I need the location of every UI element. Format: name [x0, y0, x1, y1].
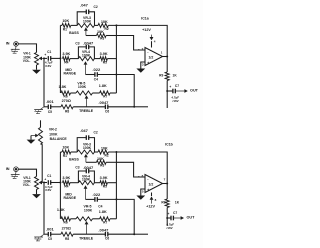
ground at non-inverting input [136, 196, 145, 200]
capacitor C5 .001 [48, 232, 50, 237]
pin 3 [142, 62, 144, 66]
wire jack to volume pot [18, 44, 36, 53]
svg-text:VR-2: VR-2 [49, 128, 57, 132]
label C3 [75, 41, 79, 45]
wire R1 to bass pot [71, 150, 77, 154]
wire mid wiper to C4 [86, 72, 95, 76]
svg-text:.022: .022 [92, 67, 101, 72]
svg-text:10K: 10K [101, 146, 108, 150]
wire R6 to treble pot [71, 217, 77, 221]
pin 5 [142, 189, 144, 193]
wire volume pot bottom [34, 189, 38, 194]
label VOL. [23, 183, 31, 187]
resistor R4 3.9K [63, 57, 71, 61]
svg-text:C7: C7 [175, 84, 179, 88]
label .0047 (C6) [98, 100, 109, 105]
svg-text:+12V: +12V [142, 28, 151, 32]
wire pot to R5 [94, 181, 100, 185]
wire wiper node to bottom row [42, 183, 46, 235]
capacitor C1 4.7uF [44, 53, 50, 61]
svg-text:-: - [147, 177, 148, 181]
svg-text:R1: R1 [63, 154, 67, 158]
svg-text:/16V: /16V [45, 64, 51, 68]
label 10K (R3) [97, 30, 104, 34]
svg-text:R5: R5 [103, 185, 107, 189]
label C5 [48, 237, 52, 241]
label VR-4 [82, 50, 90, 54]
potentiometer VR-4 100K mid [78, 181, 94, 185]
label 3.9K (R5) [100, 176, 108, 180]
wire balance pot top stub [38, 120, 42, 127]
label 4.7µF [45, 185, 53, 189]
svg-text:C4: C4 [94, 77, 98, 81]
input jack J2 [14, 167, 19, 172]
label 10K (R3) [97, 157, 104, 161]
wire supply pin [149, 41, 153, 47]
potentiometer VR-3 100K bass [77, 23, 94, 27]
label R1 [63, 27, 67, 31]
wire below C7 node [165, 91, 169, 108]
svg-text:R4: R4 [64, 60, 68, 64]
label 1.8K (R6) [57, 208, 65, 212]
wire C4 to feedback corner [98, 75, 135, 107]
wire C1 to left bus [51, 56, 60, 60]
wire R1 to bass pot [71, 23, 77, 27]
label R7 [103, 95, 107, 99]
label TREBLE [79, 109, 94, 113]
label /16V (C7) [173, 99, 179, 103]
svg-text:OUT: OUT [186, 216, 195, 220]
svg-text:C3: C3 [75, 166, 79, 170]
label 100K (VR-4) [82, 54, 91, 58]
label R6 [64, 221, 68, 225]
label C1 [47, 174, 51, 178]
svg-text:RANGE: RANGE [63, 72, 76, 76]
label VR-5 [77, 81, 85, 85]
ground at input jack [11, 172, 20, 179]
label 100K (VR-3) [83, 19, 92, 23]
svg-text:.001: .001 [46, 226, 55, 231]
label 1.8K (R7) [99, 84, 107, 88]
resistor R1 10K [62, 150, 71, 154]
svg-text:.0047: .0047 [83, 165, 94, 170]
svg-text:+: + [44, 177, 46, 181]
svg-text:100K: 100K [84, 209, 93, 213]
wire pot to R7 [93, 217, 100, 221]
resistor R3 10K [97, 160, 107, 164]
label minus pin [138, 174, 140, 178]
svg-text:1.8K: 1.8K [57, 208, 65, 212]
ground below volume pot [32, 70, 41, 74]
plus inside op-amp [147, 61, 149, 65]
wire balance wiper to ground [29, 136, 33, 140]
node C7 [166, 90, 168, 92]
node C4 line / bus [115, 198, 117, 200]
label BASS [69, 31, 79, 35]
node C7 [166, 217, 168, 219]
label R5 [103, 60, 107, 64]
wire bus to R1 [60, 23, 62, 27]
bass wiper arrow [84, 154, 88, 162]
potentiometer VR-1 (volume) [35, 52, 39, 65]
svg-text:100K: 100K [82, 54, 91, 58]
label 100K (VR-4) [82, 178, 91, 182]
label BALANCE [50, 137, 68, 141]
ground at input jack [11, 46, 20, 53]
wire to OUT [176, 89, 188, 93]
svg-text:+: + [167, 212, 169, 216]
label MID [65, 192, 72, 196]
svg-text:100K: 100K [78, 85, 87, 89]
wire R5 to right bus [107, 56, 116, 60]
ground at bottom row [34, 234, 44, 241]
node at left bus / C1 [59, 57, 61, 59]
wire C4 to feedback corner [98, 199, 135, 234]
potentiometer VR-2 100K balance [39, 127, 43, 144]
resistor R2 10K [98, 150, 108, 154]
pin 4 [154, 39, 156, 43]
svg-text:R7: R7 [103, 220, 107, 224]
label C7 [175, 84, 179, 88]
label VR-2 [49, 128, 57, 132]
supply arrow +12V [150, 196, 154, 203]
svg-text:/16V: /16V [167, 226, 173, 230]
treble wiper arrow stem [85, 221, 89, 234]
svg-text:3.9K: 3.9K [62, 176, 70, 180]
node bottom row corner [133, 106, 135, 108]
label R6 [64, 95, 68, 99]
wire op-amp output [163, 181, 168, 185]
resistor R3 10K [97, 34, 107, 38]
node bottom row corner [133, 233, 135, 235]
svg-text:1K: 1K [175, 200, 180, 204]
label R1 [63, 154, 67, 158]
svg-text:C6: C6 [105, 109, 109, 113]
svg-text:.047: .047 [80, 128, 89, 133]
label 10K (R1) [62, 19, 69, 23]
label 1/2 [148, 56, 153, 60]
capacitor C3 .0047 parallel loop [78, 45, 94, 59]
label .0047 (C6) [98, 227, 109, 232]
svg-text:VOL.: VOL. [23, 59, 31, 63]
label R4 [64, 185, 68, 189]
ground at balance wiper [27, 140, 36, 144]
wire op-amp output [163, 54, 168, 58]
svg-text:C1: C1 [47, 50, 51, 54]
plus inside op-amp [147, 188, 149, 192]
label +12V [142, 28, 151, 32]
non-inverting input wire [141, 62, 145, 69]
svg-text:10K: 10K [101, 20, 108, 24]
right bus wire [114, 152, 118, 219]
svg-text:IN: IN [6, 167, 10, 171]
label R9 [161, 200, 165, 204]
label .047 [80, 128, 89, 133]
potentiometer VR-5 100K treble [76, 91, 93, 95]
svg-text:C3: C3 [75, 41, 79, 45]
label 100K (VR-2) [49, 132, 58, 136]
label BASS [69, 157, 79, 161]
svg-text:C7: C7 [173, 211, 177, 215]
balance wiper arrow [31, 134, 39, 138]
label C4 [98, 205, 102, 209]
label IC1a [141, 17, 148, 21]
label VOL. [23, 59, 31, 63]
label 100K [23, 55, 31, 59]
wire bottom row stub [134, 105, 148, 109]
label .022 [92, 192, 101, 197]
label C3 [75, 166, 79, 170]
non-inverting input wire [141, 189, 145, 196]
label C1 [47, 50, 51, 54]
resistor R2 10K [98, 23, 108, 27]
wire pot to R5 [94, 56, 100, 60]
label /16V [45, 64, 51, 68]
svg-text:+: + [147, 61, 149, 65]
svg-text:10K: 10K [62, 19, 69, 23]
svg-text:/16V: /16V [45, 188, 51, 192]
svg-text:BASS: BASS [69, 31, 79, 35]
wire R4 to mid pot [70, 56, 78, 60]
wire output to R9 [165, 57, 169, 73]
wire R2 to output node [108, 25, 167, 56]
svg-text:3.9K: 3.9K [62, 52, 70, 56]
resistor R6 1.8K [61, 91, 71, 95]
wire C1 to left bus [51, 180, 60, 184]
pin 7 output [164, 177, 166, 181]
label OUT [186, 216, 195, 220]
svg-text:VOL.: VOL. [23, 183, 31, 187]
right bus wire [114, 25, 118, 93]
label TREBLE [79, 237, 94, 241]
svg-text:100K: 100K [49, 132, 58, 136]
pin 6 [142, 174, 144, 178]
label R9 [159, 73, 163, 77]
label .022 [92, 67, 101, 72]
wire pot to R7 [93, 91, 100, 95]
wire wiper to C1 [44, 56, 47, 60]
wire below C7 node [165, 218, 169, 226]
svg-text:+: + [44, 53, 46, 57]
node output [166, 183, 168, 185]
label 1.8K (R6) [58, 85, 66, 89]
wire bottom row left [44, 105, 48, 109]
pin 2 [142, 47, 144, 51]
svg-text:1/2: 1/2 [148, 183, 153, 187]
svg-text:3.9K: 3.9K [100, 52, 108, 56]
node bus top [115, 24, 117, 26]
label 270Ω [62, 227, 71, 231]
label 1K [175, 200, 180, 204]
wire bus to op-amp inverting input [116, 162, 145, 177]
label 3.9K (R4) [62, 176, 70, 180]
svg-text:.047: .047 [80, 2, 89, 7]
wire wiper to C1 [44, 180, 47, 184]
label .0047 (C3) [83, 41, 94, 46]
wire C6 to feedback corner [108, 232, 134, 236]
label 1/2 [148, 183, 153, 187]
label .001 [46, 226, 55, 231]
wire C5 to R8 [51, 232, 61, 236]
wire to OUT [174, 216, 184, 220]
resistor R8 270ohm [61, 105, 73, 109]
capacitor C2 .047 parallel loop [77, 135, 94, 152]
svg-text:1.8K: 1.8K [99, 210, 107, 214]
svg-text:C1: C1 [47, 174, 51, 178]
label VR-3 [83, 143, 91, 147]
label C2 [94, 131, 98, 135]
svg-text:.0047: .0047 [98, 227, 109, 232]
pin 8 [155, 198, 157, 202]
svg-text:IC1a: IC1a [141, 17, 148, 21]
svg-text:VR-5: VR-5 [84, 205, 92, 209]
minus inside op-amp [147, 50, 148, 54]
potentiometer VR-5 100K treble [76, 217, 93, 221]
potentiometer VR-1 (volume) [35, 176, 39, 189]
wire R9 to C7 [165, 81, 169, 92]
wire balance bottom corner [41, 142, 43, 146]
label VR-1 [23, 52, 31, 56]
svg-text:+12V: +12V [146, 205, 155, 209]
resistor R6 1.8K [61, 217, 71, 221]
supply arrow +12V [150, 35, 154, 41]
svg-text:R7: R7 [103, 95, 107, 99]
svg-text:R4: R4 [64, 185, 68, 189]
op-amp U1b [145, 175, 163, 193]
label 4.7µF (C7) [166, 223, 174, 227]
label C4 [94, 77, 98, 81]
svg-text:100K: 100K [82, 178, 91, 182]
volume wiper arrow [39, 57, 44, 61]
label .047 [80, 2, 89, 7]
svg-text:R8: R8 [65, 237, 69, 241]
label VR-3 [83, 16, 91, 20]
resistor R5 3.9K [100, 57, 107, 61]
svg-text:BASS: BASS [69, 157, 79, 161]
resistor R9 1K [165, 72, 169, 81]
resistor R5 3.9K [100, 181, 107, 185]
left bus wire [58, 152, 62, 219]
label RANGE [63, 196, 76, 200]
wire pot to R2 [95, 150, 99, 154]
wire mid wiper to C4 [86, 197, 95, 201]
resistor R7 1.8K [100, 91, 110, 95]
svg-text:R5: R5 [103, 60, 107, 64]
svg-text:1K: 1K [173, 73, 178, 77]
label IN [6, 42, 10, 46]
capacitor C7 4.7uF [167, 212, 173, 220]
label /16V (C7) [167, 226, 173, 230]
node wiper/C1 [43, 182, 45, 184]
label IN [6, 167, 10, 171]
resistor R7 1.8K [100, 217, 110, 221]
wire R8 to C6 [73, 232, 105, 236]
svg-text:C6: C6 [105, 237, 109, 241]
ground at non-inverting input [136, 69, 145, 73]
svg-text:IN: IN [6, 42, 10, 46]
bass wiper arrow [84, 27, 88, 35]
label C5 [48, 110, 52, 114]
svg-text:-: - [147, 50, 148, 54]
svg-text:C2: C2 [94, 5, 98, 9]
label .001 [46, 99, 55, 104]
svg-text:.0047: .0047 [83, 41, 94, 46]
svg-text:.001: .001 [46, 99, 55, 104]
svg-text:RANGE: RANGE [63, 196, 76, 200]
label C6 [105, 109, 109, 113]
mid wiper arrow stem [84, 61, 88, 74]
resistor R4 3.9K [63, 181, 71, 185]
capacitor C6 .0047 [105, 232, 107, 237]
label 10K (R2) [101, 20, 108, 24]
svg-text:R8: R8 [65, 110, 69, 114]
capacitor C7 4.7uF [167, 85, 175, 93]
svg-text:R2: R2 [105, 154, 109, 158]
svg-text:OUT: OUT [190, 89, 199, 93]
label OUT [190, 89, 199, 93]
svg-text:1/2: 1/2 [148, 56, 153, 60]
pin 1 output [161, 50, 163, 54]
input jack J1 [14, 42, 19, 47]
svg-text:10K: 10K [97, 157, 104, 161]
svg-text:C5: C5 [48, 110, 52, 114]
label 100K (VR-3) [83, 146, 92, 150]
wire C5 to R8 [51, 105, 61, 109]
resistor R9 1K [165, 199, 169, 208]
resistor R8 270ohm [61, 232, 73, 236]
label 100K (VR-5) [84, 209, 93, 213]
svg-text:R9: R9 [161, 200, 165, 204]
label +12V [146, 205, 155, 209]
label R2 [105, 27, 109, 31]
label 270Ω [62, 99, 71, 103]
wire R7 to right bus [110, 91, 116, 95]
svg-text:100K: 100K [83, 19, 92, 23]
svg-text:R6: R6 [64, 95, 68, 99]
svg-text:10K: 10K [97, 30, 104, 34]
wire C6 to feedback corner [108, 105, 134, 109]
svg-text:.0047: .0047 [98, 100, 109, 105]
svg-text:TREBLE: TREBLE [79, 237, 94, 241]
svg-text:C2: C2 [94, 131, 98, 135]
wire R4 to mid pot [70, 181, 78, 185]
label C7 [173, 211, 177, 215]
label VR-4 [82, 174, 90, 178]
ground at bottom row [34, 107, 44, 114]
node at left bus / C1 [59, 182, 61, 184]
wire bass wiper to R3 [86, 160, 97, 164]
treble wiper arrow stem [85, 95, 89, 107]
wire R8 to C6 [73, 105, 105, 109]
label 4.7µF [45, 61, 53, 65]
svg-text:TREBLE: TREBLE [79, 109, 94, 113]
svg-text:C5: C5 [48, 237, 52, 241]
svg-text:VR-5: VR-5 [77, 81, 85, 85]
wire wiper node to bottom row [42, 58, 46, 106]
wire R5 to right bus [107, 181, 116, 185]
label C2 [94, 5, 98, 9]
svg-text:+: + [169, 85, 171, 89]
label R8 [65, 110, 69, 114]
svg-text:270Ω: 270Ω [62, 99, 71, 103]
svg-text:R6: R6 [64, 221, 68, 225]
svg-text:1.8K: 1.8K [99, 84, 107, 88]
wire bottom row left [44, 232, 48, 236]
svg-text:BALANCE: BALANCE [50, 137, 68, 141]
svg-text:/16V: /16V [173, 99, 179, 103]
capacitor C3 .0047 parallel loop [78, 169, 94, 183]
wire jack to volume pot [18, 169, 36, 176]
